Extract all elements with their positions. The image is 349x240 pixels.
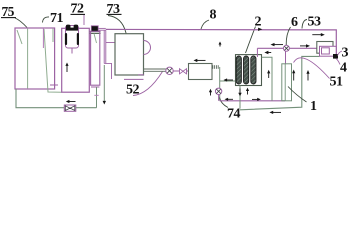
svg-text:8: 8 xyxy=(210,8,217,23)
column top pipe double xyxy=(98,28,106,30)
arrow left on valve line xyxy=(271,43,284,46)
wire valve to column drain xyxy=(76,107,97,109)
label 53 xyxy=(302,15,321,30)
tank 75 inner stub purple xyxy=(42,28,44,48)
bottom return line xyxy=(240,56,320,109)
column drain xyxy=(94,87,98,108)
arrow right under top pipe xyxy=(312,33,325,36)
label 1 xyxy=(288,87,317,115)
svg-text:74: 74 xyxy=(227,107,241,121)
arrow left below bottom return xyxy=(269,111,281,114)
tank 75 side tick xyxy=(50,84,58,86)
svg-text:6: 6 xyxy=(291,15,298,30)
wire pump52 to valve xyxy=(173,70,179,72)
top pipe 8 xyxy=(106,28,336,54)
arrow right before unit xyxy=(300,44,310,47)
svg-text:75: 75 xyxy=(2,4,15,19)
bottom purple line xyxy=(220,98,285,101)
label 74 xyxy=(220,98,241,122)
arrow left above valve xyxy=(66,100,76,103)
arrow up left riser xyxy=(267,70,270,78)
label 75 xyxy=(1,4,27,28)
tank 71 xyxy=(62,28,90,92)
pump 72 body xyxy=(65,25,79,48)
wire to downcomer with left arrow xyxy=(220,78,239,81)
column cap xyxy=(91,26,98,31)
tiny arrow up mark xyxy=(219,42,222,47)
arrow left above box xyxy=(194,59,206,62)
box 73 side bump xyxy=(144,41,151,55)
box 73 bottom tick xyxy=(138,74,144,76)
column body xyxy=(91,31,100,85)
label 6 xyxy=(286,15,298,45)
arrow up right riser xyxy=(292,70,295,81)
valve 6 (circle X) xyxy=(283,45,289,64)
pump 52 (circle X) xyxy=(166,67,173,74)
label 8 xyxy=(201,8,217,29)
svg-text:3: 3 xyxy=(342,46,349,61)
hatch connection right of box xyxy=(213,65,218,69)
riser box xyxy=(282,64,292,101)
label 72 xyxy=(71,2,86,25)
svg-text:53: 53 xyxy=(308,15,322,30)
box 73 xyxy=(115,34,144,75)
valve bottom left (bowtie) xyxy=(64,105,76,111)
tank 75 inner slant tube xyxy=(44,29,62,92)
valve mid (bowtie) xyxy=(180,69,187,74)
tank 75 inner dip tube xyxy=(27,29,29,89)
tank 75 top-left slant mark xyxy=(17,30,22,44)
arrow up left of pump74 xyxy=(209,89,212,96)
wire down from box train xyxy=(219,67,221,101)
wire valve to box xyxy=(187,70,189,72)
exchanger top riser to valve line xyxy=(257,48,316,57)
label 4 xyxy=(336,59,347,76)
label 3 xyxy=(338,46,349,61)
wire tank75 outlet to valve xyxy=(16,89,64,108)
box 52-train xyxy=(189,64,213,80)
arrow up inside tank 71 xyxy=(65,63,68,73)
exchanger right outlet elbow xyxy=(262,57,273,101)
pump 72 outlet stub xyxy=(71,48,73,54)
column flange lines xyxy=(90,32,101,34)
label 52 xyxy=(126,72,163,98)
tank 75 xyxy=(15,28,55,89)
unit 5 boxes right xyxy=(317,42,338,59)
label 51 xyxy=(294,58,344,90)
svg-text:1: 1 xyxy=(310,99,317,114)
arrow left into exchanger xyxy=(264,51,271,54)
floating arrow up right of downcomer xyxy=(246,88,249,95)
heat exchanger 2 xyxy=(236,55,262,86)
pipe double vertical left of box 73 xyxy=(104,30,115,79)
svg-text:52: 52 xyxy=(126,83,140,98)
downcomer from exchanger xyxy=(238,86,241,109)
arrow up return pipe xyxy=(306,70,309,81)
pump 74 (circle X) xyxy=(215,88,221,101)
column inner slant xyxy=(94,34,97,44)
drain green with down arrow xyxy=(103,65,106,105)
svg-text:51: 51 xyxy=(330,75,344,90)
label 73 xyxy=(107,2,129,43)
box 73 bottom purple line xyxy=(124,78,144,80)
tank 75 inner stub green xyxy=(52,29,54,42)
label 71 xyxy=(43,11,64,26)
pipe box73 to pump 52 (double) xyxy=(144,69,166,71)
svg-text:71: 71 xyxy=(50,11,64,26)
label 2 xyxy=(246,15,262,54)
svg-text:4: 4 xyxy=(340,61,347,76)
column bottom double line xyxy=(91,86,99,88)
